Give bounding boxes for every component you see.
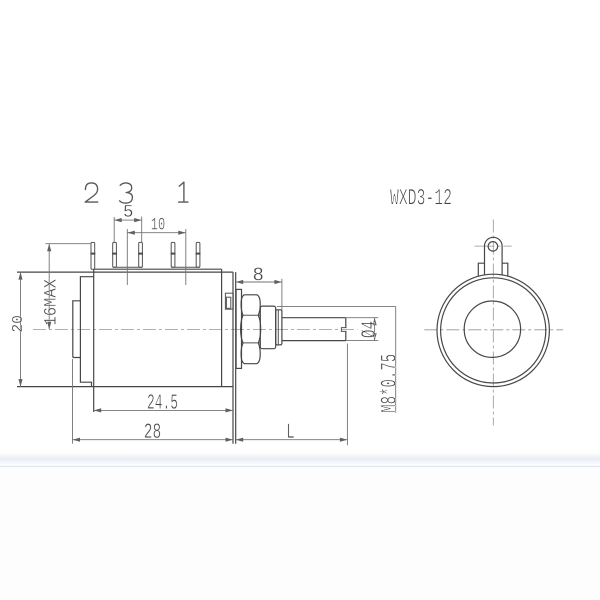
dim 24.5 label bbox=[148, 394, 177, 409]
front view bushing hole circle bbox=[464, 301, 520, 357]
dim 28 extension line bbox=[72, 359, 74, 444]
dim 24.5 line bbox=[94, 409, 233, 411]
terminal 1 left prong bbox=[171, 242, 175, 267]
threaded bushing bbox=[276, 310, 282, 345]
terminal 1 ticks bbox=[171, 253, 176, 255]
flat washer bbox=[260, 306, 275, 349]
terminal 2 prong bbox=[91, 242, 95, 269]
dim 28 label bbox=[145, 423, 161, 438]
mounting plate bbox=[232, 272, 234, 444]
terminal 3 left prong bbox=[113, 242, 117, 267]
dim 28 line bbox=[73, 439, 234, 441]
body right edge bbox=[221, 269, 223, 386]
dim L label bbox=[288, 424, 294, 438]
terminal 1 base bbox=[171, 266, 200, 268]
dim 5 line bbox=[114, 219, 142, 221]
front view outer circle bbox=[437, 274, 549, 386]
dim 10 line bbox=[127, 232, 186, 234]
body flange top line bbox=[94, 268, 222, 270]
hex nut bbox=[241, 295, 261, 364]
locating tab inner bbox=[226, 297, 230, 308]
body left edge bbox=[93, 269, 95, 412]
terminal 1 right prong bbox=[196, 242, 200, 267]
dim diameter4 line bbox=[374, 318, 376, 341]
body top line bbox=[17, 271, 233, 273]
dim L line bbox=[236, 439, 348, 441]
dim 10 extension lines bbox=[126, 229, 128, 285]
terminal 3 ticks bbox=[112, 253, 117, 255]
terminal label 2 bbox=[85, 183, 98, 202]
dim 20 label bbox=[12, 316, 22, 332]
dim 8 line bbox=[236, 281, 282, 283]
background band bbox=[0, 452, 600, 466]
collar ear right bbox=[502, 263, 508, 276]
dim 8 label bbox=[254, 267, 263, 280]
front view vertical centerline bbox=[492, 220, 494, 426]
dim 10 label bbox=[152, 218, 165, 230]
front view inner ring bbox=[441, 278, 546, 383]
terminal 3 base bbox=[113, 266, 143, 268]
dim diameter4 extension lines bbox=[346, 317, 379, 319]
dim 20 line bbox=[20, 272, 22, 387]
collar ear left bbox=[478, 263, 484, 276]
dim 5 extension lines bbox=[113, 217, 115, 242]
hex nut facet lines bbox=[241, 314, 260, 316]
front view horizontal centerline bbox=[424, 329, 563, 331]
rear cover bbox=[80, 277, 93, 387]
dim 5 label bbox=[124, 205, 132, 217]
dim 16MAX line bbox=[48, 244, 50, 330]
dim diameter4 label bbox=[361, 321, 375, 337]
lock washer bbox=[236, 289, 241, 368]
thread callout M8x0.75 label bbox=[379, 355, 395, 412]
shaft bbox=[282, 317, 346, 319]
shaft slot bbox=[341, 328, 346, 332]
centerline side view axis bbox=[33, 328, 358, 330]
dim 16MAX extension line bbox=[46, 243, 92, 245]
anti-rotation lug bbox=[485, 237, 503, 275]
lug hole centerline bbox=[475, 245, 512, 247]
model label WXD3-12 bbox=[390, 189, 451, 205]
dim 16MAX label bbox=[44, 279, 56, 324]
terminal label 3 bbox=[120, 183, 133, 203]
terminal 3 right prong bbox=[139, 242, 143, 267]
dim L extension line bbox=[346, 344, 348, 446]
body bottom line bbox=[17, 386, 233, 388]
rear small boss bbox=[73, 301, 81, 358]
terminal 2 tick bbox=[90, 253, 95, 255]
lug hole bbox=[488, 242, 498, 252]
locating tab outer bbox=[225, 293, 233, 309]
thread callout M8x0.75 leader bbox=[277, 306, 396, 308]
terminal label 1 bbox=[179, 182, 188, 202]
